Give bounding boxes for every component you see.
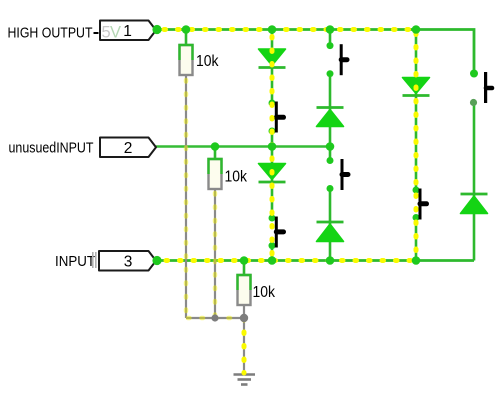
pushbutton S1	[269, 100, 284, 135]
junction pin2 column B	[326, 142, 335, 151]
LED D6 (cathode up)	[461, 194, 488, 214]
svg-text:10k: 10k	[196, 53, 219, 70]
wire column A upper	[271, 30, 274, 104]
wire column B upper	[329, 30, 332, 46]
pin 3 connector	[99, 251, 156, 271]
pushbutton S5	[413, 187, 427, 222]
highlight dashes column A	[270, 37, 275, 259]
wire top bus plain segment to right column	[416, 30, 474, 74]
LED D5 (cathode down)	[403, 78, 430, 96]
highlight dashes ground wire	[242, 319, 247, 374]
highlight dashes column C	[414, 33, 419, 258]
junction top bus column B	[326, 25, 335, 34]
junction bottom bus R3	[240, 256, 249, 265]
junction pin2 column A	[268, 142, 277, 151]
svg-text:1: 1	[123, 23, 132, 40]
svg-text:2: 2	[124, 140, 133, 157]
junction top bus R1	[182, 25, 191, 34]
wire R3 to ground	[243, 304, 245, 374]
junction gray R3	[240, 314, 248, 322]
highlight dashes gray net R2 lead	[213, 193, 218, 318]
junction pin3 tip	[152, 256, 161, 265]
junction pin1 tip	[152, 25, 161, 34]
svg-text:10k: 10k	[225, 169, 248, 186]
wire column A middle	[271, 131, 274, 218]
junction top bus column A	[268, 25, 277, 34]
wire bottom bus plain segment right	[416, 259, 474, 262]
wire column D lower	[473, 103, 476, 261]
wire top bus (net 1)	[157, 28, 416, 31]
LED D2 (cathode down)	[259, 164, 286, 183]
svg-text:V: V	[110, 24, 121, 42]
wire column A lower	[271, 246, 274, 261]
pushbutton S2	[269, 215, 284, 250]
wire column C lower	[415, 218, 418, 261]
junction bottom bus column C	[412, 256, 421, 265]
resistor R2	[209, 147, 248, 190]
pushbutton S4	[327, 157, 349, 192]
junction bottom bus column B	[326, 256, 335, 265]
label dash before pin 1	[94, 32, 99, 34]
svg-text:3: 3	[124, 253, 133, 270]
wire R1 gray lead down	[185, 75, 187, 318]
wire column B lower	[329, 189, 332, 261]
pushbutton S3	[327, 42, 348, 77]
resistor R3	[238, 261, 276, 306]
LED D1 (cathode down)	[259, 49, 286, 68]
resistor R1	[180, 30, 220, 76]
pushbutton S6	[470, 70, 492, 107]
watermark bars before pin 3	[93, 252, 96, 268]
svg-text:INPUT: INPUT	[55, 253, 95, 270]
wire gray ground bus horizontal	[186, 317, 244, 319]
junction top bus column C	[412, 25, 421, 34]
svg-text:unusuedINPUT: unusuedINPUT	[9, 140, 94, 157]
junction pin2 R2	[211, 142, 220, 151]
LED D3 (cathode up)	[317, 108, 344, 127]
wire column B middle	[329, 74, 332, 161]
wire column C upper	[415, 30, 418, 191]
junction gray R2	[211, 314, 218, 321]
pin 2 connector	[100, 138, 156, 158]
highlight dashes top bus	[164, 27, 416, 32]
highlight dashes bottom bus	[166, 258, 416, 263]
junction bottom bus column A	[268, 256, 277, 265]
ground	[234, 375, 256, 385]
LED D4 (cathode up)	[317, 222, 344, 242]
svg-text:HIGH OUTPUT: HIGH OUTPUT	[8, 25, 93, 42]
wire bottom bus (net 3)	[157, 259, 416, 262]
wire pin2 net horizontal	[156, 145, 330, 147]
pin 1 connector	[100, 21, 156, 42]
svg-text:10k: 10k	[253, 284, 276, 301]
highlight dashes gray net R1 lead	[184, 80, 189, 318]
wire R2 gray lead down	[214, 189, 216, 318]
highlight dashes gray net horizontal	[188, 316, 242, 321]
